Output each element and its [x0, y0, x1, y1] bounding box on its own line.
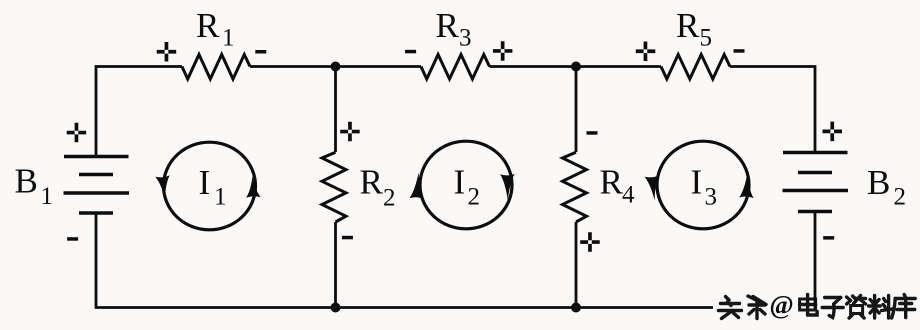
resistor R3 — [421, 55, 490, 80]
svg-text:I: I — [454, 163, 466, 202]
polarity - at B1 bottom — [67, 237, 78, 241]
polarity + at B1 top — [67, 123, 87, 143]
wire: node B down to R4 — [575, 67, 578, 153]
polarity + at B2 top — [823, 122, 843, 142]
svg-text:R: R — [600, 163, 624, 202]
svg-text:1: 1 — [41, 183, 54, 210]
wire: R1 to node A — [250, 65, 336, 68]
svg-text:@: @ — [770, 291, 794, 320]
wire: node B to R5 — [576, 65, 661, 68]
polarity - at R2 bottom — [342, 236, 353, 240]
wire: B2 branch over watermark — [814, 291, 817, 309]
polarity + at R4 bottom — [580, 232, 600, 252]
svg-text:4: 4 — [622, 182, 635, 209]
label R5 — [676, 6, 712, 52]
mesh loop I3 (counter-clockwise circle) — [645, 141, 754, 229]
label R4 — [600, 163, 636, 209]
svg-text:3: 3 — [705, 184, 718, 211]
resistor R5 — [661, 55, 730, 80]
svg-text:R: R — [360, 163, 384, 202]
polarity + at R1 left — [157, 42, 177, 62]
wire: R4 down to bottom node D — [575, 222, 578, 308]
label R2 — [360, 163, 396, 212]
polarity + at R5 left — [636, 42, 656, 62]
svg-text:B: B — [15, 162, 38, 201]
resistor R1 — [182, 55, 250, 80]
polarity - at R3 left — [405, 50, 416, 54]
mesh loop I1 (counter-clockwise circle) — [155, 142, 260, 230]
svg-text:1: 1 — [222, 25, 235, 52]
wire: bottom middle — [336, 306, 577, 309]
wire: R2 down to bottom node C — [334, 222, 337, 308]
label I1 — [199, 163, 227, 211]
svg-text:5: 5 — [700, 25, 713, 52]
svg-text:2: 2 — [383, 185, 396, 212]
resistor R2 — [322, 152, 346, 222]
svg-text:3: 3 — [459, 25, 472, 52]
label I2 — [454, 163, 481, 211]
svg-text:2: 2 — [468, 184, 481, 211]
svg-text:I: I — [691, 163, 703, 202]
polarity + at R3 right — [493, 41, 513, 61]
polarity - at B2 bottom — [823, 236, 834, 240]
polarity - at R5 right — [734, 49, 745, 53]
mesh loop I2 (clockwise circle) — [410, 141, 515, 229]
svg-text:R: R — [676, 6, 700, 45]
svg-text:1: 1 — [214, 184, 227, 211]
junction node D (bottom right) — [571, 303, 581, 313]
wire: node A to R3 — [336, 65, 422, 68]
label B2 — [867, 163, 906, 211]
label B1 — [15, 162, 54, 211]
wire: R5 to B2, right side — [730, 67, 815, 154]
wire: top side, B1 to R1 — [96, 67, 182, 157]
junction node B (top right) — [571, 62, 581, 72]
svg-text:R: R — [196, 6, 220, 45]
wire: R3 to node B — [490, 65, 577, 68]
polarity - at R4 top — [587, 131, 598, 135]
wire: B2 to bottom-right corner — [576, 213, 815, 308]
polarity - at R1 right — [255, 50, 266, 54]
svg-text:B: B — [867, 163, 890, 202]
polarity + at R2 top — [340, 122, 360, 142]
label R1 — [196, 6, 235, 52]
resistor R4 — [563, 152, 587, 222]
svg-text:2: 2 — [894, 184, 907, 211]
junction node C (bottom left) — [331, 303, 341, 313]
wire: B1 to bottom-left corner — [96, 214, 336, 308]
label R3 — [436, 6, 472, 52]
watermark logo+text: toutiao at dianzi ziliaoku — [713, 291, 916, 322]
label I3 — [691, 163, 718, 211]
battery B1 — [64, 157, 130, 214]
svg-text:I: I — [199, 163, 211, 202]
wire: node A down to R2 — [334, 67, 337, 153]
svg-text:R: R — [436, 6, 460, 45]
junction node A (top left) — [331, 62, 341, 72]
battery B2 — [783, 153, 849, 212]
